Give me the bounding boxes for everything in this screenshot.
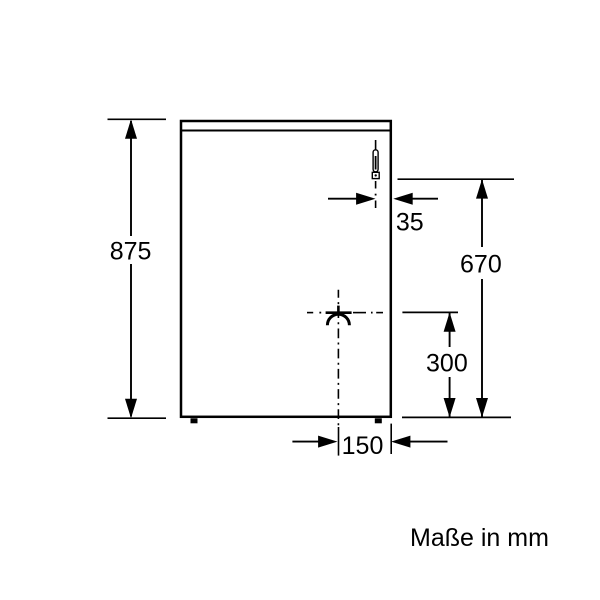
svg-text:300: 300 (426, 350, 468, 378)
svg-text:150: 150 (342, 432, 384, 460)
svg-text:875: 875 (110, 238, 152, 266)
svg-text:670: 670 (460, 251, 502, 279)
svg-text:Maße in mm: Maße in mm (410, 524, 549, 552)
svg-text:35: 35 (396, 208, 424, 236)
